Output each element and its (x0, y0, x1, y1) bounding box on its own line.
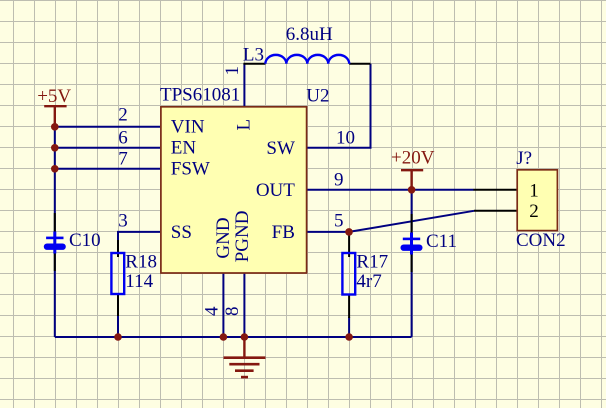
svg-text:114: 114 (125, 271, 153, 292)
resistor R17 (342, 253, 355, 295)
wire inductor right down to SW pin (307, 64, 371, 148)
svg-text:R17: R17 (356, 251, 388, 272)
svg-text:1: 1 (222, 66, 243, 76)
svg-text:6: 6 (118, 128, 128, 149)
svg-text:10: 10 (336, 128, 355, 149)
svg-text:+20V: +20V (391, 148, 435, 169)
pin J? 1 (473, 189, 517, 191)
svg-text:2: 2 (118, 105, 128, 126)
resistor R18 (111, 253, 124, 294)
svg-text:9: 9 (334, 169, 344, 190)
black component pins (55, 64, 517, 318)
svg-text:7: 7 (118, 148, 128, 169)
svg-text:J?: J? (516, 148, 532, 169)
svg-text:3: 3 (118, 210, 128, 231)
ground symbol (224, 337, 266, 377)
wire R17 bottom to rail (348, 317, 350, 337)
pin L3 1 (243, 63, 265, 65)
pin R17 bottom (348, 295, 350, 318)
node +20V/OUT (408, 186, 416, 194)
svg-text:PGND: PGND (232, 211, 253, 263)
IC U2 TPS61081 body (161, 107, 307, 273)
svg-text:CON2: CON2 (516, 230, 566, 251)
svg-text:C10: C10 (69, 230, 101, 251)
wire IC pin1 up to inductor (243, 64, 245, 106)
pin L3 2 (349, 63, 370, 65)
svg-text:L3: L3 (243, 44, 264, 65)
inductor L3 (265, 55, 349, 64)
svg-text:5: 5 (334, 210, 344, 231)
wire SS to R18 (118, 232, 160, 242)
svg-text:L: L (233, 119, 254, 131)
pin C11 bottom (411, 254, 413, 272)
node pin8/GND (241, 333, 249, 341)
wire +5V left rail (54, 127, 56, 337)
pin C10 top (54, 213, 56, 232)
pin R18 bottom (117, 294, 119, 316)
node FSW (51, 165, 59, 173)
wire bottom ground rail (55, 336, 412, 338)
wire R18 bottom to rail (117, 315, 119, 337)
svg-text:8: 8 (222, 307, 243, 317)
svg-text:C11: C11 (426, 231, 457, 252)
wire pin 8 to ground rail (243, 273, 245, 337)
svg-text:FB: FB (272, 222, 295, 243)
wire FSW net (55, 168, 160, 170)
svg-text:FSW: FSW (171, 159, 210, 180)
svg-text:VIN: VIN (171, 117, 205, 138)
wire EN net (55, 147, 160, 149)
wire FB diagonal to connector pin 2 (349, 211, 474, 232)
svg-text:4r7: 4r7 (356, 271, 381, 292)
svg-text:4: 4 (202, 306, 223, 316)
connector J? CON2 body (517, 170, 557, 231)
wire pin 4 to ground rail (222, 273, 224, 337)
pin R18 top (117, 240, 119, 257)
wire OUT net (307, 189, 474, 191)
node R18/GND (114, 333, 122, 341)
svg-text:+5V: +5V (37, 86, 71, 107)
pin C10 bottom (54, 253, 56, 271)
svg-text:U2: U2 (306, 85, 329, 106)
svg-text:TPS61081: TPS61081 (160, 85, 240, 106)
svg-text:SW: SW (266, 138, 295, 159)
pin J? 2 (474, 210, 517, 212)
node EN (51, 144, 59, 152)
svg-text:6.8uH: 6.8uH (286, 24, 333, 45)
node pin4/GND (220, 333, 228, 341)
node R17/GND (345, 333, 353, 341)
svg-text:1: 1 (529, 180, 539, 201)
svg-text:GND: GND (213, 217, 234, 258)
svg-text:R18: R18 (125, 251, 157, 272)
power +20V symbol (401, 170, 423, 190)
wire VIN net (55, 126, 160, 128)
pin R17 top (348, 232, 350, 257)
wire C11 branch vertical (411, 190, 413, 337)
node FB (345, 228, 353, 236)
capacitor C10 (44, 232, 66, 254)
svg-text:2: 2 (529, 201, 539, 222)
svg-text:OUT: OUT (256, 180, 295, 201)
svg-text:SS: SS (171, 222, 192, 243)
pin C11 top (411, 214, 413, 233)
power +5V symbol (44, 106, 66, 127)
wire FB stub (307, 231, 349, 233)
svg-text:EN: EN (171, 138, 197, 159)
capacitor C11 (401, 233, 423, 255)
node +5V/VIN (51, 123, 59, 131)
